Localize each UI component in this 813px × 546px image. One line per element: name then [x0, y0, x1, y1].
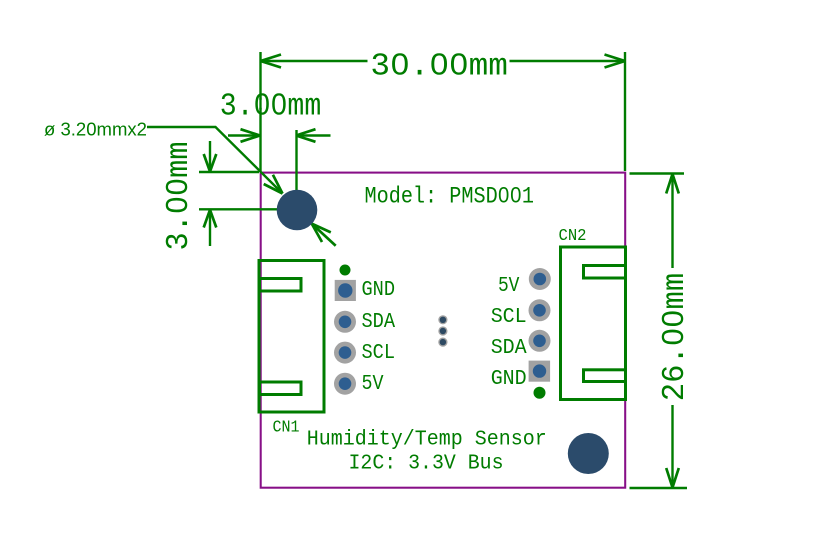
- svg-text:CN2: CN2: [559, 226, 587, 245]
- svg-text:3.00mm: 3.00mm: [220, 89, 322, 124]
- svg-text:Humidity/Temp Sensor: Humidity/Temp Sensor: [307, 427, 547, 451]
- svg-text:5V: 5V: [362, 372, 384, 396]
- svg-text:3.00mm: 3.00mm: [162, 142, 197, 251]
- svg-text:SDA: SDA: [491, 336, 527, 360]
- svg-text:5V: 5V: [498, 274, 520, 298]
- svg-text:ø 3.20mmx2: ø 3.20mmx2: [44, 119, 147, 140]
- svg-text:I2C: 3.3V Bus: I2C: 3.3V Bus: [349, 451, 504, 475]
- svg-text:Model: PMSD001: Model: PMSD001: [365, 183, 535, 209]
- svg-text:CN1: CN1: [273, 417, 300, 436]
- svg-text:GND: GND: [362, 278, 396, 302]
- svg-text:SCL: SCL: [362, 341, 396, 365]
- svg-text:SDA: SDA: [362, 310, 396, 334]
- svg-text:SCL: SCL: [491, 305, 527, 329]
- svg-text:GND: GND: [491, 367, 527, 391]
